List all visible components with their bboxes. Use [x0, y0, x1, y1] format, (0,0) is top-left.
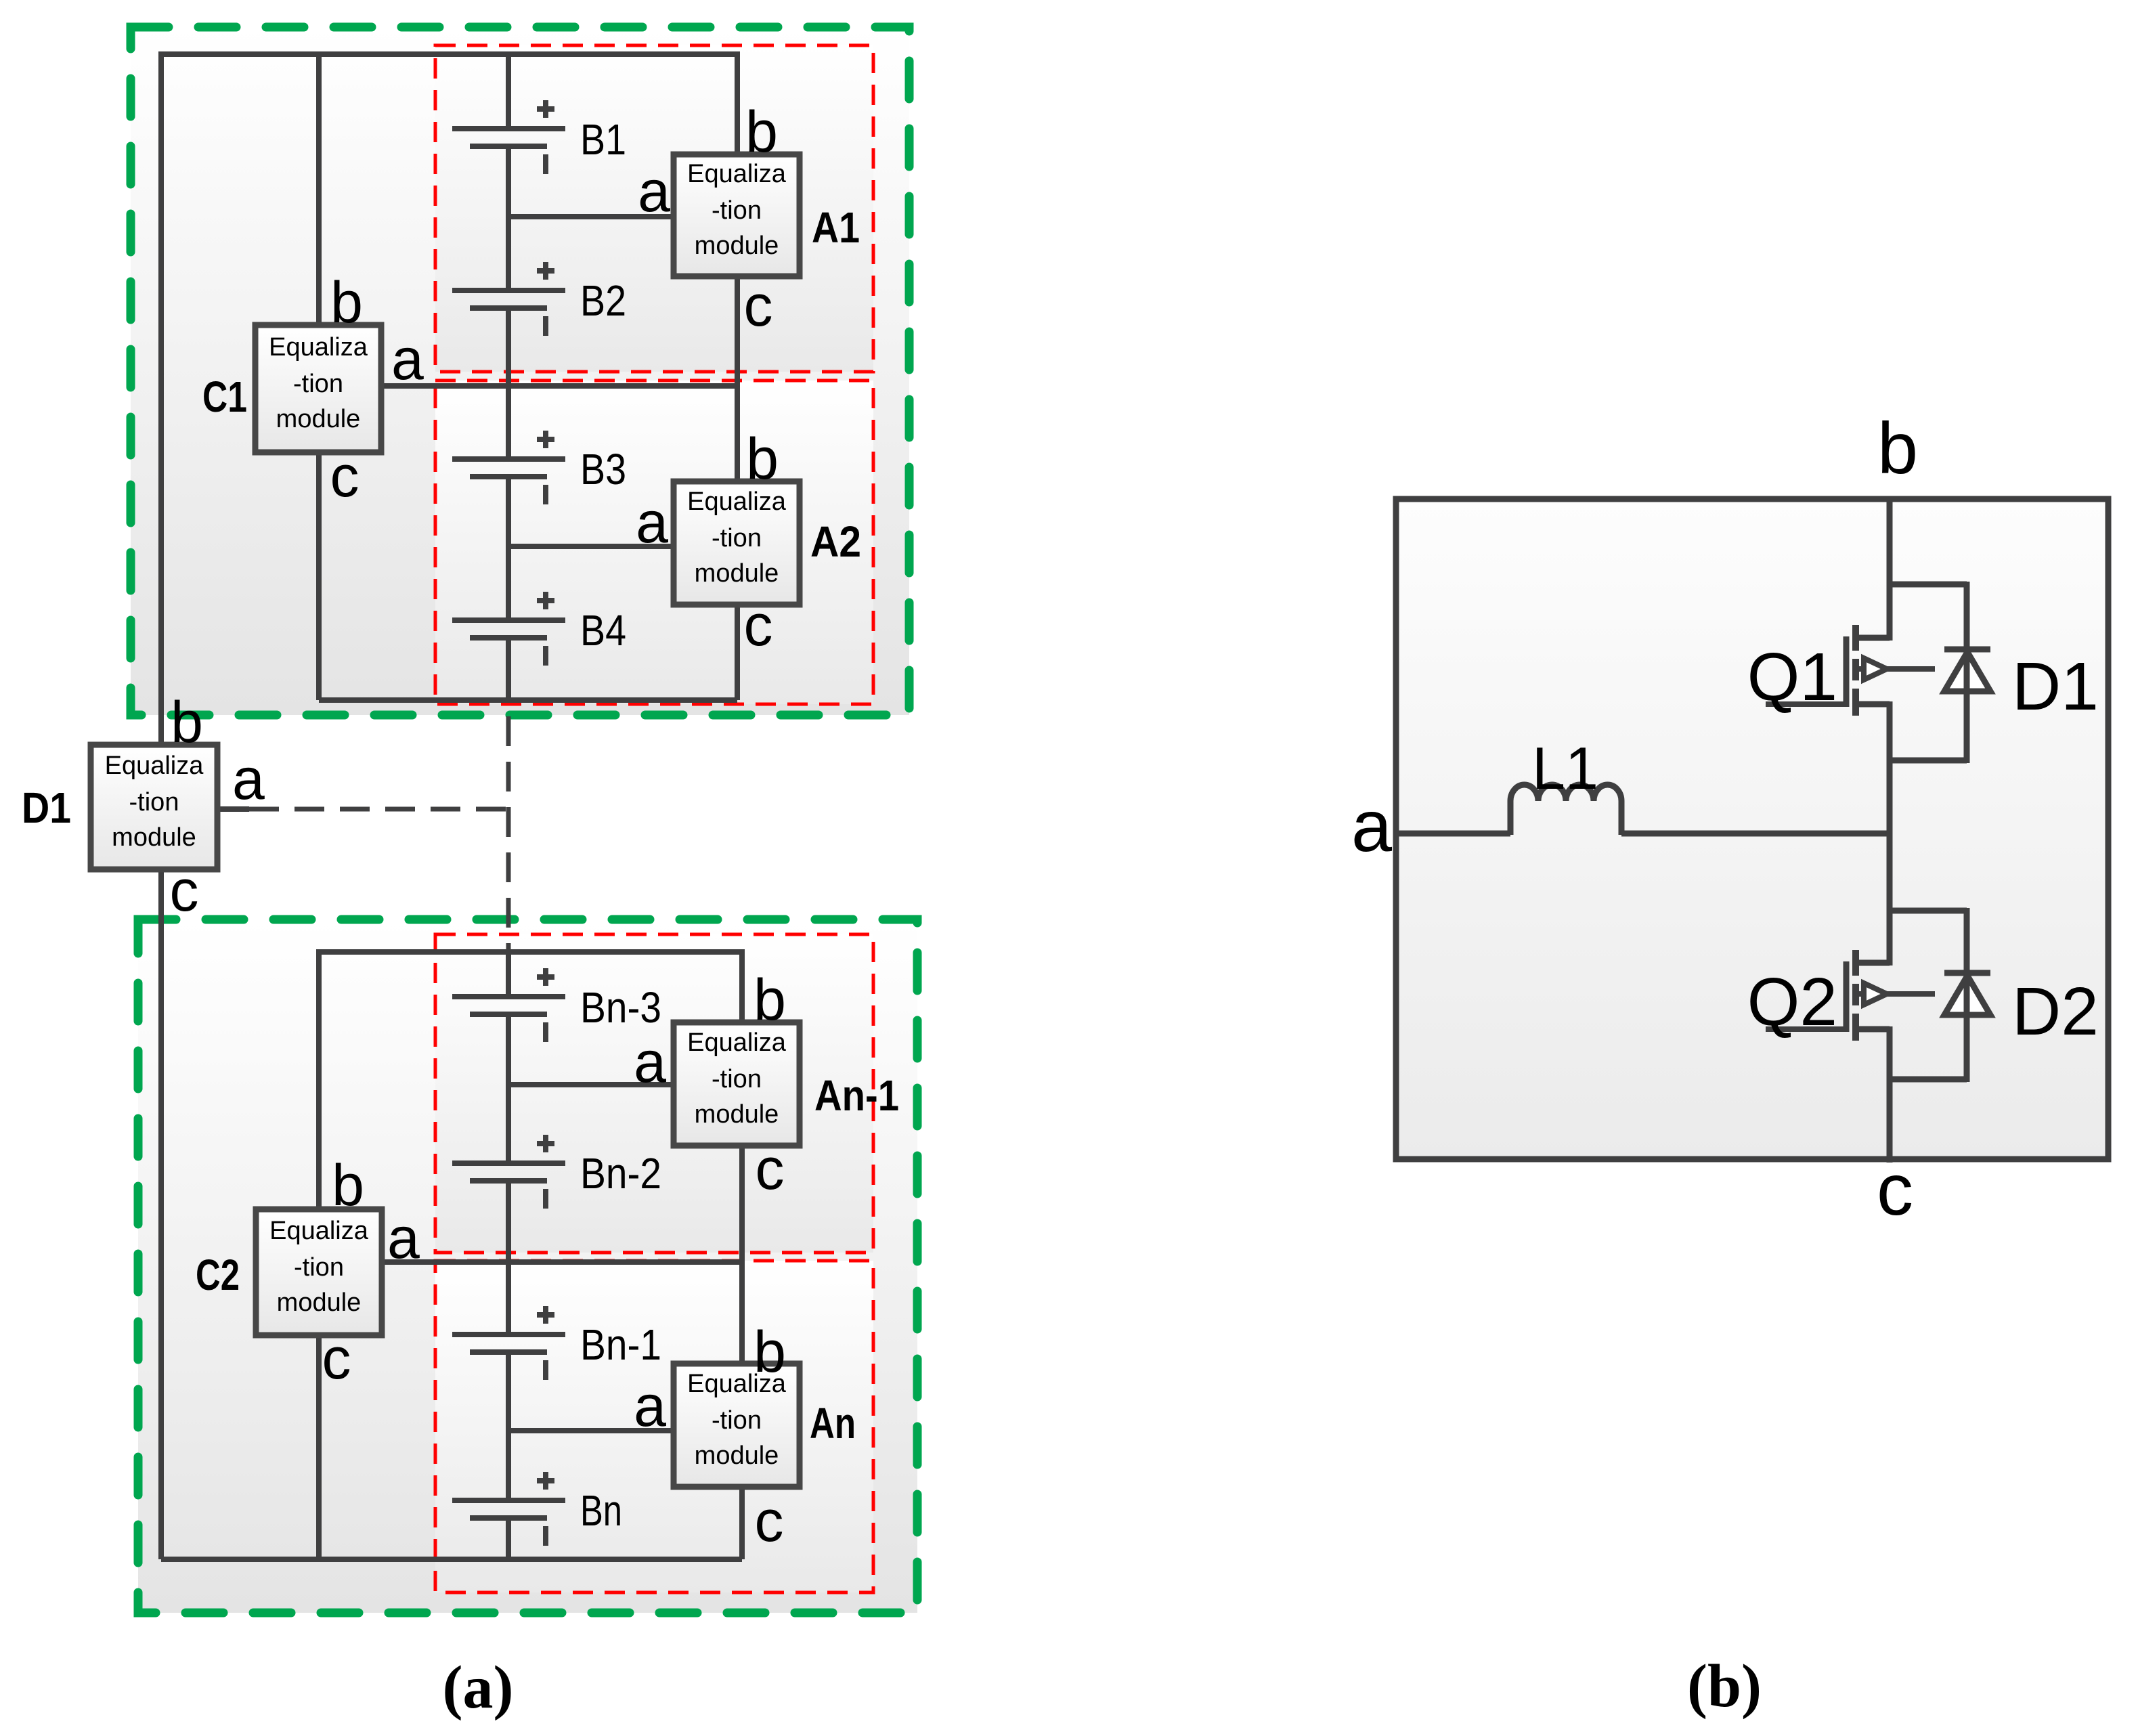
svg-text:b: b [330, 270, 363, 335]
equalization module A2 box [674, 481, 800, 605]
svg-text:c: c [744, 593, 773, 658]
svg-text:module: module [695, 1100, 779, 1129]
diode D2 branch top jog [1890, 908, 1967, 914]
svg-text:(a): (a) [443, 1654, 514, 1721]
wire node a to inductor L1 [1399, 831, 1510, 837]
wire bottom rail (bottom group) [161, 1557, 742, 1562]
svg-text:(b): (b) [1687, 1653, 1762, 1720]
wire top rail (top group) [161, 51, 737, 57]
transistor Q1 body line with arrow [1858, 666, 1866, 672]
svg-text:a: a [638, 159, 670, 224]
svg-text:module: module [277, 1288, 362, 1317]
wire battery string seg B4-rail [506, 637, 511, 700]
svg-text:b: b [1877, 407, 1918, 489]
wire battery string seg B1-B2 [506, 145, 511, 292]
wire An.c vertical [739, 1487, 745, 1559]
svg-text:Equaliza: Equaliza [269, 333, 368, 362]
svg-text:-tion: -tion [293, 370, 343, 398]
red dashed module group box 2 (B3,B4,A2) [435, 381, 873, 704]
svg-text:Equaliza: Equaliza [687, 487, 787, 516]
svg-text:B1: B1 [580, 115, 626, 164]
svg-text:An: An [810, 1399, 856, 1448]
wire left outer vertical (top rail to D1.b) [158, 51, 164, 745]
svg-text:c: c [330, 444, 359, 509]
svg-text:-tion: -tion [294, 1253, 344, 1282]
equalization module A1 box [674, 154, 800, 276]
transistor Q1 source stub [1856, 701, 1890, 708]
wire bus b to Q1 drain [1887, 496, 1893, 641]
transistor Q1 gate bar [1844, 636, 1850, 707]
svg-text:c: c [170, 859, 199, 924]
wire node B1/B2 to A1.a [508, 214, 674, 219]
svg-text:Q2: Q2 [1747, 964, 1837, 1040]
wire battery string seg rail-B1 [506, 51, 511, 130]
svg-text:Bn: Bn [580, 1486, 622, 1535]
wire An-1.b vertical [739, 949, 745, 1022]
svg-text:B2: B2 [580, 276, 626, 325]
diode D1 cathode bar [1944, 647, 1990, 653]
transistor Q2 drain stub [1856, 960, 1890, 966]
wire C2.c vertical [316, 1335, 322, 1559]
dashed wire battery string between groups [506, 716, 511, 951]
wire top rail (bottom group) [319, 949, 742, 955]
wire bottom rail (top group) [319, 697, 737, 703]
svg-text:a: a [232, 747, 265, 812]
diode D2 branch vertical [1964, 908, 1970, 1082]
svg-text:module: module [695, 1441, 779, 1470]
red dashed module group box 4 (Bn-1,Bn,An) [435, 1261, 873, 1592]
diode D2 branch bottom jog [1890, 1077, 1967, 1083]
svg-text:Equaliza: Equaliza [687, 1028, 787, 1057]
transistor Q2 gate bar [1844, 961, 1850, 1032]
equalization module C1 box [255, 325, 381, 452]
wire C1.c vertical [316, 454, 322, 700]
dashed wire D1.a to battery string [249, 807, 508, 812]
svg-text:An-1: An-1 [814, 1071, 899, 1120]
transistor Q1 gate lead [1766, 701, 1844, 707]
battery B4 [452, 592, 565, 666]
wire battery string2 seg Bn-rail [506, 1517, 511, 1559]
wire battery string2 seg rail-Bn-3 [506, 949, 511, 998]
wire node Bn-1/Bn to An.a [508, 1428, 674, 1433]
equalization module D1 box [91, 745, 217, 869]
wire node Bn-3/Bn-2 to An-1.a [508, 1082, 674, 1087]
battery Bn-2 [452, 1135, 565, 1209]
svg-text:Bn-2: Bn-2 [580, 1149, 661, 1198]
wire A1.b vertical [735, 51, 740, 154]
wire D1.a solid stub [217, 806, 249, 812]
svg-text:c: c [322, 1326, 351, 1391]
wire node B3/B4 to A2.a [508, 544, 674, 549]
wire battery string2 seg Bn-2-Bn-1 [506, 1179, 511, 1336]
transistor Q1 channel bar segments [1852, 625, 1859, 716]
svg-text:b: b [754, 1320, 786, 1385]
wire bus Q2 source to c [1887, 1026, 1893, 1163]
svg-text:module: module [112, 823, 196, 852]
svg-text:Equaliza: Equaliza [105, 752, 204, 780]
svg-text:A2: A2 [810, 517, 861, 566]
wire battery string seg B2-B3 [506, 307, 511, 460]
svg-text:C1: C1 [202, 372, 247, 421]
wire left outer vertical (D1.c to bottom rail) [158, 869, 164, 1559]
wire bus Q1 source to Q2 drain (node a junction) [1887, 701, 1893, 965]
diode D2 triangle [1944, 976, 1990, 1015]
svg-text:-tion: -tion [712, 1065, 762, 1093]
battery B1 [452, 100, 565, 174]
svg-text:a: a [387, 1206, 420, 1271]
svg-text:a: a [634, 1374, 666, 1439]
svg-text:Equaliza: Equaliza [269, 1217, 369, 1245]
svg-text:a: a [391, 327, 424, 392]
wire C2.b vertical [316, 949, 322, 1209]
transistor Q2 body line with arrow [1858, 991, 1866, 997]
wire battery string2 seg Bn-1-Bn [506, 1351, 511, 1502]
wire A1.c to A2.b vertical [735, 276, 740, 481]
equalization module An box [674, 1364, 800, 1487]
wire An-1.c to An.b vertical [739, 1146, 745, 1364]
svg-text:B3: B3 [580, 445, 626, 494]
svg-text:b: b [754, 968, 786, 1033]
svg-text:module: module [276, 405, 361, 433]
svg-text:A1: A1 [812, 203, 860, 252]
battery B2 [452, 262, 565, 336]
svg-text:a: a [636, 490, 668, 555]
svg-text:Bn-3: Bn-3 [580, 983, 661, 1032]
transistor Q2 source stub [1856, 1026, 1890, 1033]
red dashed module group box 1 (B1,B2,A1) [435, 45, 873, 372]
equalization module An-1 box [674, 1022, 800, 1146]
svg-text:c: c [756, 1137, 785, 1202]
converter cell outer box (b) [1396, 499, 2108, 1159]
wire node Bn-2/Bn-1 to C2.a [382, 1259, 742, 1265]
equalization module C2 box [256, 1209, 382, 1335]
diode D1 triangle [1944, 652, 1990, 691]
svg-text:L1: L1 [1532, 735, 1598, 802]
svg-text:-tion: -tion [712, 1406, 762, 1435]
svg-text:-tion: -tion [712, 196, 762, 225]
svg-text:a: a [634, 1030, 666, 1095]
diode D1 branch top jog [1890, 582, 1967, 588]
diode D1 branch bottom jog [1890, 758, 1967, 764]
svg-text:C2: C2 [196, 1251, 240, 1299]
svg-text:Q1: Q1 [1747, 639, 1837, 715]
red dashed module group box 3 (Bn-3,Bn-2,An-1) [435, 934, 873, 1253]
svg-text:b: b [171, 690, 203, 755]
wire C1.b vertical [316, 51, 322, 325]
svg-text:a: a [1351, 785, 1393, 867]
wire node B2/B3 to C1.a [380, 383, 737, 389]
battery Bn [452, 1472, 565, 1546]
transistor Q2 channel bar segments [1852, 950, 1859, 1041]
svg-text:module: module [695, 232, 779, 260]
svg-text:b: b [332, 1153, 364, 1218]
svg-text:B4: B4 [580, 606, 626, 655]
svg-text:-tion: -tion [129, 788, 179, 817]
green dashed group box 1 (top battery group) [131, 27, 909, 715]
svg-text:b: b [746, 427, 779, 492]
svg-text:-tion: -tion [712, 524, 762, 552]
svg-text:D1: D1 [22, 783, 71, 832]
transistor Q1 drain stub [1856, 635, 1890, 641]
svg-text:D2: D2 [2012, 974, 2099, 1049]
wire battery string seg B3-B4 [506, 476, 511, 622]
svg-text:b: b [745, 100, 778, 165]
diode D1 branch vertical [1964, 582, 1970, 763]
battery Bn-3 [452, 968, 565, 1042]
svg-text:D1: D1 [2012, 649, 2099, 724]
wire battery string2 seg Bn-3-Bn-2 [506, 1013, 511, 1165]
svg-text:c: c [744, 274, 773, 339]
svg-text:module: module [695, 559, 779, 588]
battery Bn-1 [452, 1306, 565, 1380]
battery B3 [452, 431, 565, 504]
svg-text:c: c [1877, 1148, 1913, 1230]
inductor L1 [1510, 785, 1621, 835]
wire A2.c vertical [735, 605, 740, 700]
svg-text:c: c [755, 1489, 784, 1554]
green dashed group box 2 (bottom battery group) [138, 919, 917, 1613]
wire inductor L1 to node bus [1621, 831, 1890, 837]
diode D2 cathode bar [1944, 970, 1990, 976]
svg-text:Bn-1: Bn-1 [580, 1320, 661, 1369]
transistor Q2 gate lead [1766, 1026, 1844, 1032]
